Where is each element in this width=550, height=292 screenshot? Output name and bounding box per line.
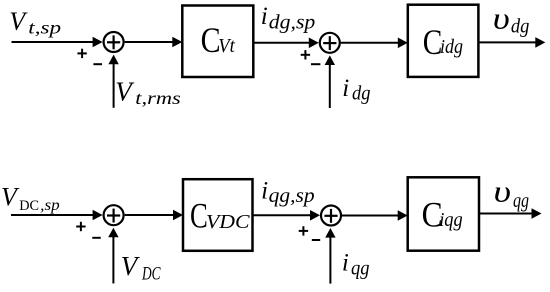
svg-text:qg,sp: qg,sp [269, 185, 315, 207]
svg-text:VDC: VDC [206, 211, 250, 233]
svg-text:t,sp: t,sp [28, 17, 61, 37]
svg-text:Vt: Vt [218, 35, 235, 57]
svg-text:dg: dg [511, 15, 530, 37]
svg-text:DC: DC [141, 263, 160, 284]
svg-text:i: i [342, 75, 349, 102]
svg-text:i: i [342, 250, 349, 277]
svg-text:DC: DC [19, 198, 39, 214]
svg-text:qg: qg [513, 190, 529, 212]
svg-text:dg: dg [352, 83, 371, 105]
svg-text:υ: υ [494, 174, 512, 209]
svg-text:i: i [261, 3, 268, 30]
svg-text:,sp: ,sp [40, 197, 60, 214]
svg-text:dg,sp: dg,sp [269, 12, 316, 34]
svg-text:υ: υ [493, 1, 510, 36]
svg-text:i: i [261, 178, 268, 205]
svg-text:qg: qg [351, 258, 370, 280]
svg-text:iqg: iqg [439, 209, 463, 231]
svg-text:idg: idg [440, 36, 463, 58]
svg-text:t,rms: t,rms [135, 88, 181, 108]
